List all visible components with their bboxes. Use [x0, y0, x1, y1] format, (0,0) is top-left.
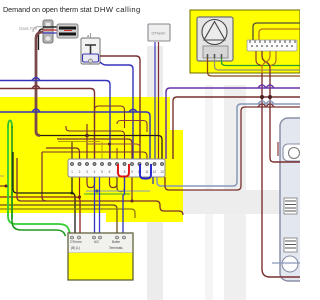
wire bundle olive [0, 209, 135, 218]
wire maze corner left drop [42, 152, 46, 201]
wire mains maroon L-edge horizontal [0, 89, 95, 160]
wire blue drop boiler right [122, 195, 124, 236]
wire riser maroon B (to cylinder stat) [270, 73, 274, 162]
boiler terminal box B1 [68, 233, 133, 280]
svg-text:13: 13 [160, 170, 164, 174]
wire red into J1 [43, 29, 57, 31]
wire grey-blue into cylinder bottom [272, 262, 300, 264]
wire drop t1 to bundle [71, 177, 73, 193]
wire OT maroon down from U1 [158, 42, 160, 159]
net highlight region: pump junction box (yellow, top right) [190, 10, 300, 73]
wire purple hop at riser A [258, 85, 266, 88]
svg-text:Terminals: Terminals [109, 246, 123, 250]
wire black L into J1 [43, 26, 57, 28]
net highlight region: main wiring centre (yellow) [0, 97, 183, 222]
wire drop t2 to bundle [79, 177, 81, 197]
link blue terminals 10-11 [140, 164, 151, 179]
wire blue N into J1 [43, 32, 57, 34]
wire hop of blue over gas cable [32, 78, 40, 81]
wire blue rail hop at stat blue [129, 109, 137, 112]
wire maze vertical t1 [71, 141, 73, 159]
wire earth thin rail below strip [84, 193, 130, 195]
wire maze horizontal y144 [87, 144, 140, 148]
svg-text:(B) (L): (B) (L) [71, 246, 80, 250]
room thermostat T1 [81, 33, 100, 64]
svg-text:2: 2 [79, 170, 81, 174]
wire pair grey-blue (terminal 11 loop to cylinder) [157, 104, 300, 186]
wire TS2 drop maroon short left [256, 51, 262, 66]
svg-text:Boiler: Boiler [112, 240, 121, 244]
svg-text:OTherm: OTherm [70, 240, 82, 244]
wire bundle dark red (to boiler B) [0, 197, 80, 236]
wire maze upper hoop B [117, 121, 147, 133]
wire maze vertical t3 [86, 124, 88, 159]
wire gas-fire cable (thick maroon) down from J1 [36, 32, 43, 136]
wire maze olive texture [58, 142, 102, 160]
svg-text:DHW calling: DHW calling [94, 5, 141, 14]
svg-text:5: 5 [101, 170, 103, 174]
wire maze vertical t6 top [116, 148, 118, 159]
svg-text:a: a [87, 33, 90, 38]
link U below strip t6-t7 [117, 177, 125, 192]
terminal block TB1 (choc block) [57, 24, 78, 38]
svg-text:1: 1 [71, 170, 73, 174]
wire earth green main (left riser to boiler) [8, 126, 70, 236]
wire riser B entry over cylinder [274, 161, 300, 163]
wire boiler call orange into TS2 [259, 29, 300, 40]
junction dot riser A on maroon net [260, 95, 264, 99]
wire bundle brown [0, 205, 117, 236]
junction dot riser B on maroon net [268, 95, 272, 99]
wire maroon from stat T1 to wiring centre [100, 56, 140, 159]
wire earth green second (dark) [12, 126, 66, 236]
svg-text:sw: sw [0, 174, 5, 178]
wire drop t8 to bundle [131, 177, 133, 201]
svg-text:OTherm: OTherm [152, 32, 166, 36]
svg-text:8: 8 [124, 170, 126, 174]
wire maze corner t2 [46, 148, 80, 159]
wire blue drop to boiler N2 [99, 177, 101, 236]
wire neutral thin rail below strip [86, 190, 150, 192]
link U below strip t5-t6 [110, 177, 118, 188]
wire blue rail hop at gas cable [32, 109, 40, 112]
wire blue stub below strip [152, 177, 154, 184]
wire blue from stat T1 down into wiring centre [100, 62, 133, 159]
svg-text:A/C: A/C [94, 240, 100, 244]
pump P1 [197, 17, 233, 61]
svg-text:12: 12 [153, 170, 157, 174]
wire OT blue down from U1 [154, 42, 156, 159]
junction dot maze [85, 134, 89, 138]
svg-text:11: 11 [145, 170, 149, 174]
wire bundle maroon long [17, 158, 183, 215]
wire mains blue L-edge horizontal [0, 81, 110, 160]
svg-text:3: 3 [86, 170, 88, 174]
wire blue rail inside wiring centre [0, 112, 150, 159]
cylinder / boiler unit M1 (right edge) [280, 118, 314, 281]
terminal strip TS2 (junction box rail) [247, 40, 297, 51]
wire pair hops at risers [258, 101, 274, 104]
wire maze horizontal y152 [42, 152, 147, 159]
wire earth green hairpin top [8, 121, 12, 129]
wire maroon net (terminal 13 to right edge) [173, 97, 300, 159]
wire stub at left edge [0, 185, 6, 187]
svg-text:Demand on open therm stat: Demand on open therm stat [3, 5, 92, 14]
wire TS2 drop orange crossing pair [262, 51, 270, 73]
svg-text:4: 4 [94, 170, 96, 174]
wire riser maroon A (to cylinder bottom) [262, 73, 270, 277]
wire pair maroon (terminal 12 loop to cylinder) [165, 107, 300, 190]
wire black down from J1 [39, 29, 44, 50]
background shading band vertical right faint [205, 85, 213, 300]
wire pump live brown [208, 58, 301, 76]
wire bundle black (strip 1 to boiler) [13, 152, 75, 236]
wire gas cable rail to strip (black) [40, 136, 162, 160]
wire pump neutral grey [215, 58, 301, 70]
wire boiler call dark into TS2 [253, 23, 300, 40]
wire hop of maroon over gas cable [32, 86, 40, 89]
wire purple hop at riser B [266, 85, 274, 88]
wire blue drop to boiler N1 [94, 177, 96, 236]
wire TS2 drop orange short right [270, 51, 276, 66]
svg-text:Gass Fire: Gass Fire [19, 26, 38, 31]
wire maze upper branch [66, 126, 125, 159]
wire earth sleeve curve at J1 left [33, 27, 43, 32]
terminal strip TS1 (wiring centre) [68, 159, 165, 179]
wire maroon stub along cylinder edge [277, 142, 279, 156]
wire TS2 drop maroon crossing pair [262, 51, 270, 73]
svg-text:6: 6 [109, 170, 111, 174]
wire maze upper hoop A [95, 106, 125, 128]
link U below strip t3-t4 [87, 177, 95, 188]
svg-text:9: 9 [131, 170, 133, 174]
wire green overlay over bundle [7, 192, 9, 216]
link red terminals 7-8 [118, 164, 129, 177]
background shading band horizontal right [163, 190, 300, 214]
wire purple net (terminal 12 to right edge) [166, 88, 300, 159]
wire riser A entry over cylinder [270, 276, 300, 278]
OpenTherm controller U1 [148, 24, 170, 41]
wire pump earth green [222, 58, 301, 66]
wire maroon rail 2 above strip [57, 139, 132, 159]
background shading band vertical centre [147, 46, 163, 300]
wire maze vertical t5 [109, 144, 111, 159]
connector block J1 (gas fire supply) [43, 20, 53, 43]
